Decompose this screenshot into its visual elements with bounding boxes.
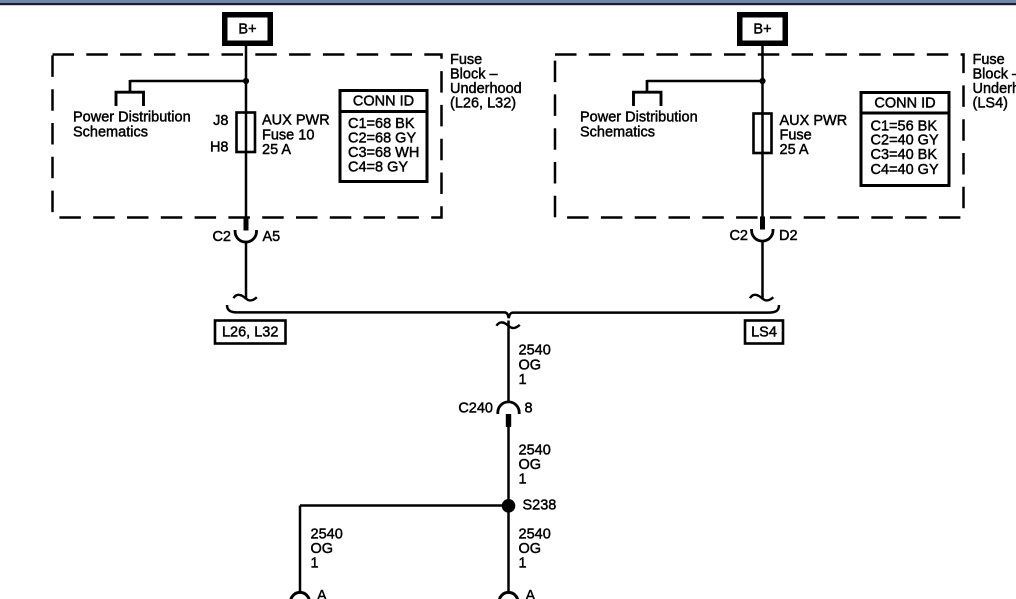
wire from brace to connector C240 xyxy=(507,321,510,404)
ring terminal circle (left branch) xyxy=(291,592,310,599)
CONN ID table (right) xyxy=(861,93,949,186)
svg-text:CONN ID: CONN ID xyxy=(874,96,935,112)
bus brace joining both circuits xyxy=(227,305,779,318)
wire horizontal branch to power distribution ref (left) xyxy=(130,80,246,83)
svg-text:A: A xyxy=(526,588,536,599)
svg-text:C240: C240 xyxy=(458,401,493,417)
connector C240 female arc xyxy=(498,402,519,414)
wire label 2540 OG 1 (left branch) xyxy=(311,527,343,572)
net label box L26, L32 xyxy=(215,321,286,344)
svg-text:C4=8 GY: C4=8 GY xyxy=(348,160,408,176)
wire break tilde (center top) xyxy=(497,322,520,328)
fuse block underhood dashed box (left) xyxy=(53,55,442,218)
svg-text:L26, L32: L26, L32 xyxy=(222,325,278,341)
wire from C240 to splice S238 xyxy=(507,427,510,506)
svg-text:2540: 2540 xyxy=(519,343,551,359)
wire label 2540 OG 1 (below C240) xyxy=(519,443,551,488)
svg-text:Power Distribution: Power Distribution xyxy=(73,110,191,126)
ring terminal circle (center branch) xyxy=(499,592,518,599)
svg-text:25 A: 25 A xyxy=(262,142,291,158)
battery terminal B+ (left) xyxy=(222,12,273,46)
svg-text:B+: B+ xyxy=(238,22,256,38)
node junction dot (right) xyxy=(759,78,765,84)
wire from B+ through fuse to connector C2 (right vertical) xyxy=(761,46,764,217)
label Fuse Block - Underhood (LS4) xyxy=(973,52,1016,112)
wire stem to bracket (right) xyxy=(646,80,649,92)
wire stem to bracket (left) xyxy=(129,80,132,92)
top dark separator line xyxy=(0,3,1016,5)
svg-text:1: 1 xyxy=(519,372,527,388)
svg-text:(LS4): (LS4) xyxy=(973,96,1008,112)
wire from B+ through fuse to connector C2 (left vertical) xyxy=(245,46,248,218)
wire left branch down xyxy=(299,506,302,594)
top window edge band xyxy=(0,0,1016,3)
node junction dot (left) xyxy=(243,78,249,84)
fuse F1 AUX PWR Fuse 10 (left) xyxy=(237,113,256,153)
svg-text:Schematics: Schematics xyxy=(580,125,655,141)
wire horizontal branch to power distribution ref (right) xyxy=(647,80,763,83)
svg-text:A5: A5 xyxy=(263,229,281,245)
svg-text:(L26, L32): (L26, L32) xyxy=(450,96,516,112)
label AUX PWR Fuse 10 25 A xyxy=(262,113,330,159)
off-page reference bracket (left) xyxy=(116,92,144,106)
label Power Distribution Schematics (right) xyxy=(580,110,698,141)
svg-text:D2: D2 xyxy=(779,228,798,244)
svg-text:25 A: 25 A xyxy=(780,142,809,158)
wire from C2 down to bus brace (right) xyxy=(761,241,764,300)
label AUX PWR Fuse 25 A xyxy=(780,113,848,158)
svg-text:S238: S238 xyxy=(523,498,557,514)
svg-text:J8: J8 xyxy=(213,113,228,129)
battery terminal B+ (right) xyxy=(737,12,788,46)
connector C2 male stub (left) xyxy=(244,217,249,231)
wire center branch down xyxy=(507,506,510,594)
svg-text:C2: C2 xyxy=(212,229,231,245)
label Power Distribution Schematics (left) xyxy=(73,110,191,141)
off-page reference bracket (right) xyxy=(634,92,662,106)
svg-text:A: A xyxy=(317,588,327,599)
connector C2 female arc (right) xyxy=(752,229,773,241)
connector C2 female arc (left) xyxy=(235,230,256,242)
svg-text:C4=40 GY: C4=40 GY xyxy=(871,162,939,178)
wire label 2540 OG 1 (center branch) xyxy=(519,527,551,572)
svg-text:CONN ID: CONN ID xyxy=(353,94,414,110)
fuse block underhood dashed box (right) xyxy=(555,55,964,218)
svg-text:1: 1 xyxy=(519,472,527,488)
svg-text:LS4: LS4 xyxy=(751,325,777,341)
net label box LS4 xyxy=(745,321,783,344)
connector C2 male stub (right) xyxy=(760,217,765,230)
svg-text:C3=40 BK: C3=40 BK xyxy=(871,147,938,163)
wire from C2 down to bus brace (left) xyxy=(245,241,248,300)
svg-text:B+: B+ xyxy=(753,22,771,38)
label Fuse Block - Underhood (L26, L32) xyxy=(450,52,522,112)
splice S238 dot xyxy=(502,499,516,513)
wire break tilde (right) xyxy=(750,295,773,301)
svg-text:Power Distribution: Power Distribution xyxy=(580,110,698,126)
wire label 2540 OG 1 (above C240) xyxy=(519,343,551,389)
svg-text:C2: C2 xyxy=(729,228,748,244)
fuse F2 AUX PWR Fuse (right) xyxy=(754,114,772,154)
wire horizontal from splice to left branch xyxy=(300,504,509,507)
svg-text:1: 1 xyxy=(311,556,319,572)
svg-text:Schematics: Schematics xyxy=(73,125,148,141)
CONN ID table (left) xyxy=(340,91,427,182)
svg-text:H8: H8 xyxy=(210,140,229,156)
connector C240 male stub xyxy=(506,414,511,427)
wire break tilde (left) xyxy=(234,295,257,301)
svg-text:8: 8 xyxy=(525,401,533,417)
svg-text:1: 1 xyxy=(519,556,527,572)
svg-text:AUX PWR: AUX PWR xyxy=(262,113,330,129)
